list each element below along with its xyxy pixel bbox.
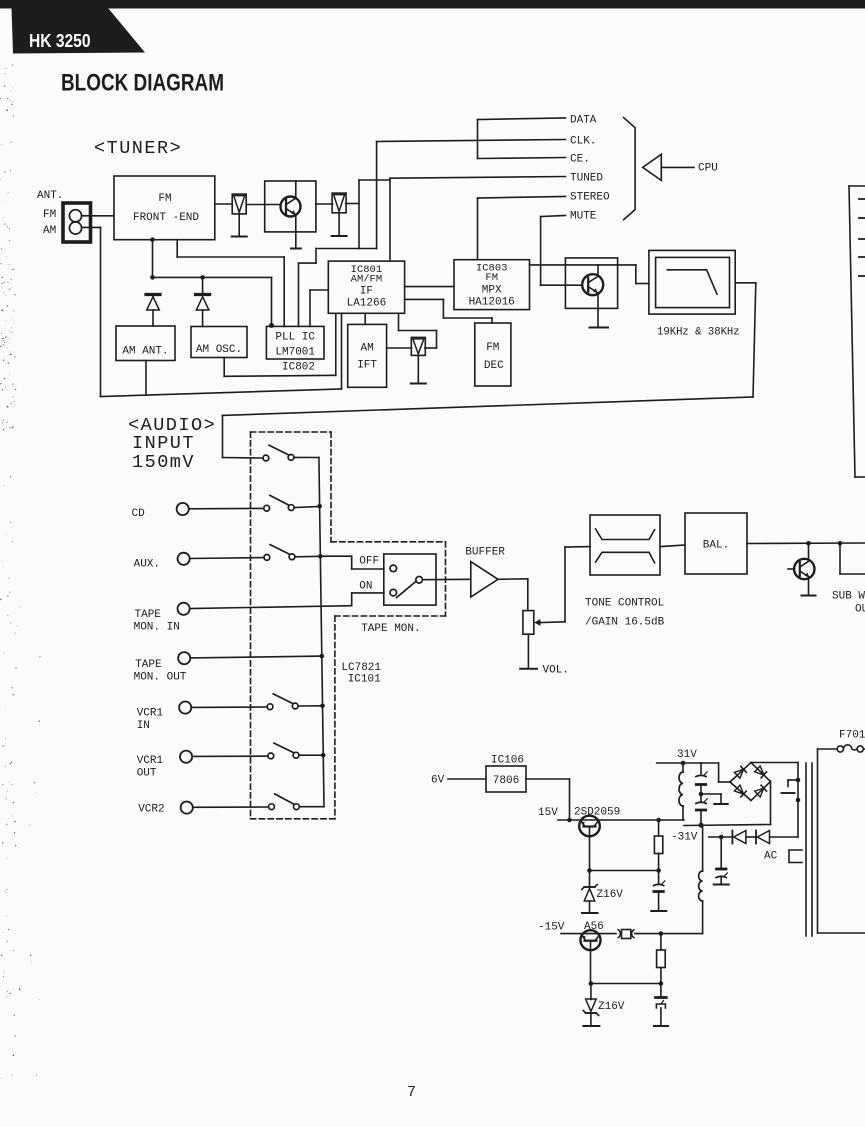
svg-text:PLL IC: PLL IC: [275, 332, 315, 344]
svg-text:15V: 15V: [538, 807, 558, 819]
svg-text:VOL.: VOL.: [543, 665, 569, 677]
svg-text:TAPE: TAPE: [135, 609, 162, 621]
svg-text:2SD2059: 2SD2059: [574, 807, 620, 819]
svg-text:LM7001: LM7001: [275, 347, 315, 359]
svg-text:150mV: 150mV: [132, 452, 195, 473]
svg-text:FM: FM: [486, 342, 499, 354]
svg-text:CE.: CE.: [570, 154, 590, 166]
svg-text:AM: AM: [360, 343, 373, 355]
svg-text:CD: CD: [132, 508, 146, 520]
svg-text:FM: FM: [485, 272, 498, 284]
svg-text:IC802: IC802: [282, 362, 315, 374]
svg-text:BUFFER: BUFFER: [465, 547, 505, 559]
svg-text:AM OSC.: AM OSC.: [196, 344, 242, 356]
svg-text:MPX: MPX: [482, 284, 502, 296]
svg-text:OFF: OFF: [359, 556, 379, 568]
svg-text:DEC: DEC: [484, 360, 504, 372]
svg-text:IC106: IC106: [491, 755, 524, 767]
svg-text:MON. OUT: MON. OUT: [134, 672, 187, 684]
svg-text:-31V: -31V: [671, 832, 698, 844]
svg-text:BAL.: BAL.: [703, 540, 729, 552]
svg-text:CPU: CPU: [698, 163, 718, 175]
svg-text:31V: 31V: [677, 749, 697, 761]
svg-text:19KHz & 38KHz: 19KHz & 38KHz: [657, 327, 740, 339]
svg-text:AM/FM: AM/FM: [351, 273, 383, 285]
svg-text:INPUT: INPUT: [132, 433, 195, 454]
svg-text:AM: AM: [43, 225, 56, 237]
svg-text:VCR2: VCR2: [138, 804, 164, 816]
svg-text:IN: IN: [137, 720, 150, 732]
svg-text:-15V: -15V: [538, 922, 565, 934]
svg-text:HA12016: HA12016: [469, 296, 515, 308]
svg-text:VCR1: VCR1: [137, 755, 164, 767]
svg-text:OUT: OUT: [855, 604, 865, 616]
svg-text:ANT.: ANT.: [37, 190, 63, 202]
svg-text:MON. IN: MON. IN: [134, 622, 180, 634]
svg-text:FRONT -END: FRONT -END: [133, 212, 199, 224]
svg-text:DATA: DATA: [570, 115, 597, 127]
svg-text:AM ANT.: AM ANT.: [122, 346, 168, 358]
svg-text:TUNED: TUNED: [570, 173, 603, 185]
svg-text:TONE CONTROL: TONE CONTROL: [585, 598, 664, 610]
svg-text:MUTE: MUTE: [570, 211, 597, 223]
svg-text:SUB WOO: SUB WOO: [832, 591, 865, 603]
svg-text:LC7821: LC7821: [341, 662, 381, 674]
svg-text:VCR1: VCR1: [137, 708, 164, 720]
svg-text:ON: ON: [359, 581, 372, 593]
svg-text:7806: 7806: [493, 775, 519, 787]
svg-text:F701: F701: [839, 730, 865, 742]
svg-text:<TUNER>: <TUNER>: [94, 138, 182, 159]
svg-text:BLOCK DIAGRAM: BLOCK DIAGRAM: [61, 70, 224, 97]
svg-text:Z16V: Z16V: [598, 1001, 625, 1013]
svg-text:CLK.: CLK.: [570, 136, 596, 148]
svg-text:FM: FM: [158, 193, 171, 205]
svg-text:TAPE: TAPE: [135, 659, 162, 671]
svg-text:LA1266: LA1266: [347, 298, 387, 310]
svg-text:IFT: IFT: [357, 360, 377, 372]
svg-text:7: 7: [407, 1084, 416, 1101]
svg-text:/GAIN 16.5dB: /GAIN 16.5dB: [585, 617, 665, 629]
svg-text:IF: IF: [360, 286, 373, 298]
svg-text:STEREO: STEREO: [570, 192, 610, 204]
svg-text:IC101: IC101: [348, 674, 381, 686]
svg-text:OUT: OUT: [137, 768, 157, 780]
svg-text:AC: AC: [764, 851, 778, 863]
svg-text:HK 3250: HK 3250: [29, 30, 91, 51]
svg-text:AUX.: AUX.: [134, 559, 160, 571]
svg-text:TAPE MON.: TAPE MON.: [361, 623, 420, 635]
svg-text:Z16V: Z16V: [597, 889, 624, 901]
svg-text:6V: 6V: [431, 775, 445, 787]
svg-text:FM: FM: [43, 209, 56, 221]
